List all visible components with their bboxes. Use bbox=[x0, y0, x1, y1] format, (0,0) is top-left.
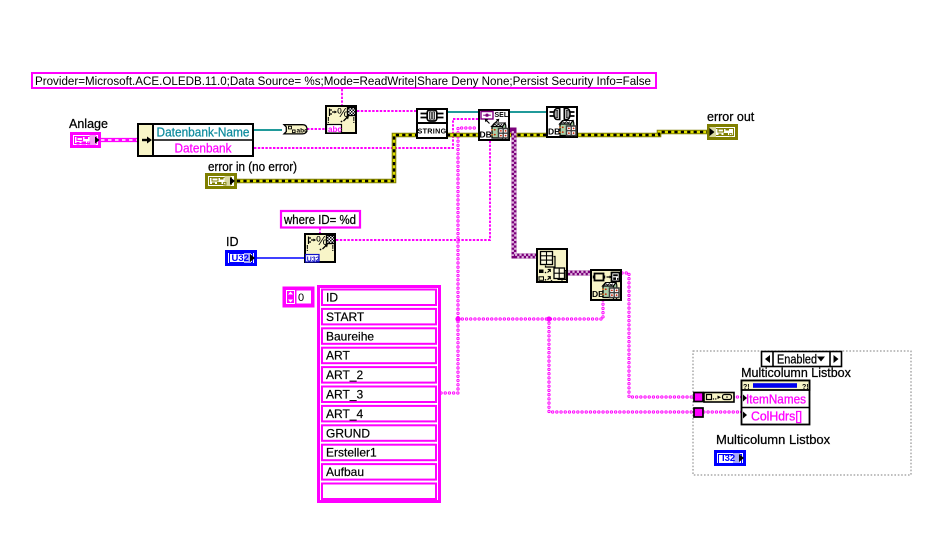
svg-text:!: ! bbox=[332, 244, 335, 253]
svg-text:Aufbau: Aufbau bbox=[326, 465, 364, 479]
svg-text:?!: ?! bbox=[743, 384, 750, 391]
svg-text:I32: I32 bbox=[722, 453, 735, 464]
svg-text:Provider=Microsoft.ACE.OLEDB.1: Provider=Microsoft.ACE.OLEDB.11.0;Data S… bbox=[35, 74, 651, 88]
svg-text:abc: abc bbox=[328, 125, 342, 134]
svg-text:error in (no error): error in (no error) bbox=[208, 160, 297, 174]
svg-text:ART: ART bbox=[326, 349, 350, 363]
svg-text:STRING: STRING bbox=[418, 126, 447, 135]
svg-text:SEL: SEL bbox=[495, 112, 509, 119]
svg-text:where ID= %d: where ID= %d bbox=[283, 213, 356, 227]
svg-text:ART_3: ART_3 bbox=[326, 388, 363, 402]
svg-text:U32: U32 bbox=[307, 256, 320, 263]
svg-text:Datenbank-Name: Datenbank-Name bbox=[157, 126, 250, 140]
svg-text:ART_4: ART_4 bbox=[326, 407, 363, 421]
svg-text:Multicolumn Listbox: Multicolumn Listbox bbox=[741, 366, 852, 380]
svg-text:error out: error out bbox=[707, 110, 755, 124]
svg-text:DB: DB bbox=[480, 130, 492, 140]
svg-text:Datenbank: Datenbank bbox=[175, 142, 233, 156]
svg-text:U32: U32 bbox=[232, 253, 249, 264]
svg-text:abc: abc bbox=[297, 127, 309, 134]
svg-text:Ersteller1: Ersteller1 bbox=[326, 446, 377, 460]
svg-text:Baureihe: Baureihe bbox=[326, 329, 374, 343]
svg-text:DB: DB bbox=[548, 127, 560, 137]
svg-text:ID: ID bbox=[326, 291, 338, 305]
svg-text:ID: ID bbox=[226, 235, 239, 249]
svg-text:ART_2: ART_2 bbox=[326, 368, 363, 382]
svg-text:!: ! bbox=[353, 116, 356, 125]
svg-text:Enabled: Enabled bbox=[777, 353, 817, 367]
svg-text:!: ! bbox=[327, 116, 330, 125]
svg-text:!: ! bbox=[306, 244, 309, 253]
svg-text:Multicolumn Listbox: Multicolumn Listbox bbox=[716, 432, 831, 447]
svg-text:GRUND: GRUND bbox=[326, 426, 370, 440]
svg-text:?!: ?! bbox=[802, 384, 809, 391]
svg-text:ItemNames: ItemNames bbox=[746, 392, 806, 407]
svg-text:0: 0 bbox=[298, 292, 304, 304]
svg-text:Anlage: Anlage bbox=[69, 117, 108, 131]
svg-text:START: START bbox=[326, 310, 365, 324]
svg-text:ColHdrs[]: ColHdrs[] bbox=[751, 409, 802, 424]
